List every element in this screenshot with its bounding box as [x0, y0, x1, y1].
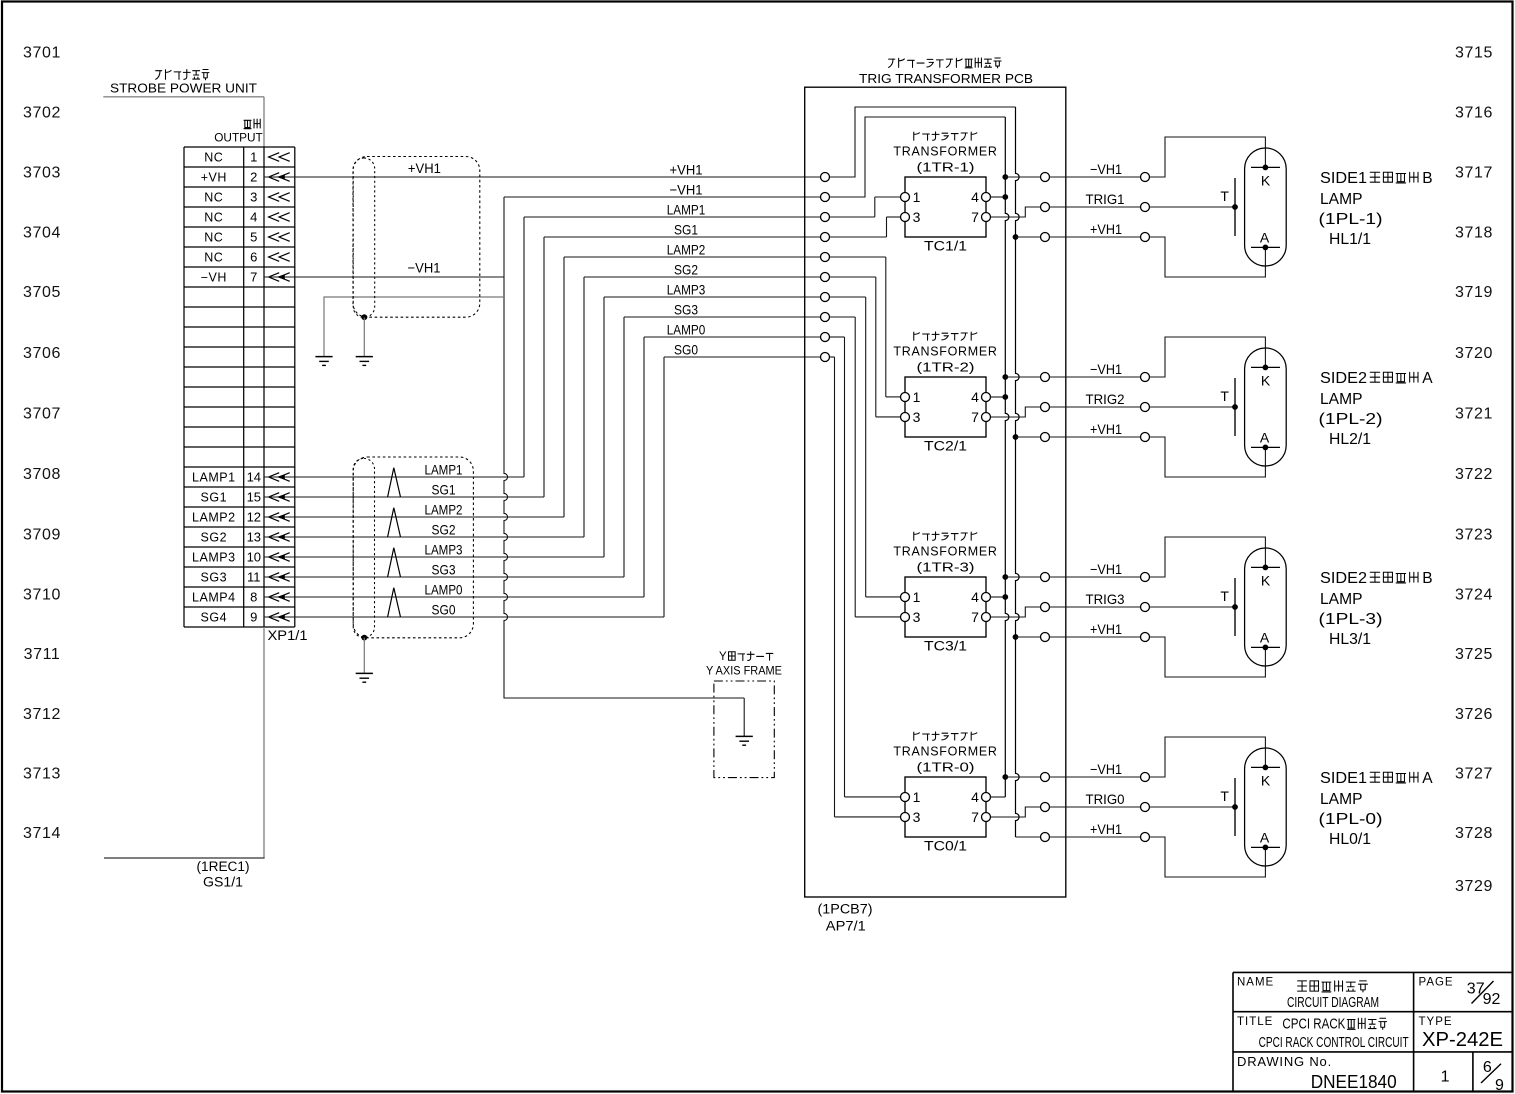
svg-text:LAMP: LAMP: [1320, 391, 1363, 408]
connector XP1 pin 7 (−VH): [201, 270, 295, 285]
svg-text:NC: NC: [204, 250, 223, 264]
svg-text:3706: 3706: [23, 345, 61, 362]
svg-text:−VH: −VH: [201, 270, 227, 284]
svg-text:SG2: SG2: [674, 261, 698, 277]
svg-text:3703: 3703: [23, 165, 61, 182]
PCB AP7 reference designator (1PCB7) AP7/1: [818, 901, 873, 933]
svg-text:LAMP3: LAMP3: [192, 550, 236, 564]
svg-text:TITLE: TITLE: [1237, 1016, 1273, 1028]
ground symbol (chassis, left): [315, 357, 332, 366]
title block: PAGE cell 37/92: [1419, 977, 1501, 1009]
svg-text:3723: 3723: [1455, 527, 1493, 544]
lamp 2 input terminal: [1141, 403, 1150, 412]
svg-text:LAMP0: LAMP0: [667, 321, 706, 337]
lamp 0 input terminal: [1141, 833, 1150, 842]
svg-text:K: K: [1261, 372, 1271, 388]
svg-text:(1PL-2): (1PL-2): [1319, 411, 1383, 428]
cable shield (dashed) around +VH1/-VH1 pair: [353, 157, 480, 318]
PCB output terminal -VH1 (lamp 3 side): [1041, 573, 1050, 582]
connector XP1 pin 15 (SG1): [201, 490, 295, 505]
svg-text:NC: NC: [204, 210, 223, 224]
PCB input terminal SG2: [821, 273, 830, 282]
chassis ground stub near cable shield: [324, 297, 504, 357]
PCB input terminal +VH1: [821, 173, 830, 182]
connector XP1 pin 8 (LAMP4): [192, 590, 295, 605]
PCB input terminal LAMP3: [821, 293, 830, 302]
svg-text:SG1: SG1: [201, 490, 228, 504]
svg-text:3: 3: [913, 409, 921, 425]
net label +VH1 (lamp 2): [1090, 421, 1122, 437]
net label +VH1 (lamp 0): [1090, 821, 1122, 837]
PCB output terminal TRIG0 (lamp 0 side): [1041, 803, 1050, 812]
wire TRIG0 to trigger electrode: [1150, 806, 1236, 808]
pin 4: [982, 393, 991, 402]
power unit GS1 label: STROBE POWER UNIT: [103, 70, 264, 147]
transformer TC0 (1TR-0): [893, 732, 997, 853]
svg-text:SG4: SG4: [201, 610, 228, 624]
net label LAMP1 (at PCB): [667, 201, 706, 217]
sheet zone numbers (right margin): [1455, 45, 1493, 896]
svg-text:3709: 3709: [23, 527, 61, 544]
wire net SG2: [295, 277, 901, 537]
connector XP1 pin 12 (LAMP2): [192, 510, 295, 525]
wire net SG1: [295, 217, 901, 497]
svg-text:3701: 3701: [23, 45, 61, 62]
wire net LAMP0: [295, 337, 901, 797]
svg-text:3724: 3724: [1455, 587, 1493, 604]
svg-text:DRAWING No.: DRAWING No.: [1237, 1054, 1332, 1069]
lamp HL2 (1PL-2) discharge tube: [1220, 348, 1286, 466]
net label +VH1 (cable): [408, 160, 441, 176]
connector XP1 pin 9 (SG4): [201, 610, 295, 625]
connector XP1 pin 4 (NC): [204, 210, 289, 225]
wire +VH1: PCB to lamp HL0 anode: [1050, 836, 1141, 838]
svg-text:LAMP2: LAMP2: [425, 501, 463, 517]
lamp HL1 name label: [1319, 170, 1433, 248]
wire TRIG3: PCB to lamp HL3 trigger: [1050, 606, 1141, 608]
wire +VH1 bus to output terminal (TC0 row): [1016, 836, 1041, 838]
svg-text:A: A: [1260, 629, 1270, 645]
svg-text:5: 5: [250, 230, 257, 245]
svg-text:TRIG2: TRIG2: [1086, 391, 1125, 407]
wire net SG3: [295, 317, 901, 617]
svg-text:3719: 3719: [1455, 284, 1493, 301]
lamp 3 input terminal: [1141, 633, 1150, 642]
svg-text:3702: 3702: [23, 105, 61, 122]
svg-text:−VH1: −VH1: [408, 259, 441, 275]
svg-text:3705: 3705: [23, 284, 61, 301]
lamp 2 input terminal: [1141, 373, 1150, 382]
svg-text:LAMP3: LAMP3: [425, 541, 463, 557]
svg-text:11: 11: [247, 570, 261, 585]
connector XP1 pin table grid: [184, 147, 295, 627]
svg-text:3728: 3728: [1455, 825, 1493, 842]
svg-text:3721: 3721: [1455, 406, 1493, 423]
svg-text:SG2: SG2: [201, 530, 228, 544]
wire lamp HL1 cathode routing: [1150, 137, 1266, 177]
svg-text:XP1/1: XP1/1: [268, 628, 308, 643]
net label TRIG0: [1086, 791, 1125, 807]
cable shield drain wire and junction (upper shield): [361, 314, 367, 356]
connector XP1 pin 14 (LAMP1): [192, 470, 295, 485]
wire TRIG3 to trigger electrode: [1150, 606, 1236, 608]
wire net -VH1: XP1 pin 7 to PCB input and Y-frame ground: [295, 117, 1006, 698]
svg-text:92: 92: [1483, 991, 1501, 1008]
title block: TITLE cell: [1237, 1016, 1409, 1051]
PCB output terminal -VH1 (lamp 1 side): [1041, 173, 1050, 182]
svg-text:K: K: [1261, 772, 1271, 788]
wire net LAMP2: [295, 257, 901, 517]
pin 7: [982, 813, 991, 822]
svg-text:+VH: +VH: [201, 170, 227, 184]
svg-text:SG0: SG0: [674, 341, 698, 357]
net label TRIG1: [1086, 191, 1125, 207]
lamp HL0 (1PL-0) discharge tube: [1220, 748, 1286, 866]
svg-text:(1PL-0): (1PL-0): [1319, 811, 1383, 828]
svg-text:DNEE1840: DNEE1840: [1311, 1071, 1397, 1092]
svg-text:TC2/1: TC2/1: [924, 438, 967, 453]
svg-text:7: 7: [971, 809, 979, 825]
net label +VH1 (lamp 3): [1090, 621, 1122, 637]
wire lamp HL0 cathode routing: [1150, 737, 1266, 777]
svg-text:A: A: [1422, 370, 1433, 387]
lamp HL3 name label: [1319, 570, 1433, 648]
title block: DRAWING No. cell DNEE1840: [1237, 1054, 1504, 1094]
svg-text:15: 15: [247, 490, 261, 505]
svg-text:3729: 3729: [1455, 878, 1493, 895]
twisted pair LAMP1/SG1: [388, 461, 463, 497]
svg-text:T: T: [1220, 788, 1229, 804]
svg-text:LAMP0: LAMP0: [425, 581, 463, 597]
svg-text:SIDE2: SIDE2: [1320, 370, 1367, 387]
net label +VH1 (lamp 1): [1090, 221, 1122, 237]
svg-text:9: 9: [1495, 1077, 1504, 1094]
svg-text:(1PCB7): (1PCB7): [818, 901, 873, 916]
svg-text:B: B: [1422, 170, 1432, 187]
lamp 3 input terminal: [1141, 603, 1150, 612]
pin 3: [901, 413, 910, 422]
svg-text:TRIG TRANSFORMER PCB: TRIG TRANSFORMER PCB: [859, 71, 1033, 86]
svg-text:Y AXIS FRAME: Y AXIS FRAME: [706, 664, 782, 678]
pin 1: [901, 193, 910, 202]
svg-text:SIDE1: SIDE1: [1320, 170, 1367, 187]
svg-text:SG2: SG2: [432, 521, 456, 537]
svg-text:1: 1: [913, 389, 921, 405]
svg-text:4: 4: [971, 789, 979, 805]
svg-text:NC: NC: [204, 190, 223, 204]
wire TC3 pin 4 to -VH1 bus: [991, 596, 1006, 598]
svg-text:TRANSFORMER: TRANSFORMER: [893, 145, 997, 159]
svg-text:3704: 3704: [23, 225, 61, 242]
svg-text:+VH1: +VH1: [408, 160, 441, 176]
twisted pair LAMP3/SG3: [388, 541, 463, 577]
svg-text:13: 13: [247, 530, 261, 545]
svg-text:7: 7: [971, 409, 979, 425]
svg-text:TRIG3: TRIG3: [1086, 591, 1125, 607]
wire TRIG1 to trigger electrode: [1150, 206, 1236, 208]
svg-text:+VH1: +VH1: [670, 161, 703, 177]
wire -VH1 bus to output terminal (TC0 row): [1002, 774, 1040, 780]
svg-text:SIDE2: SIDE2: [1320, 570, 1367, 587]
svg-text:SG3: SG3: [432, 561, 456, 577]
PCB input terminal SG1: [821, 233, 830, 242]
lamp 3 input terminal: [1141, 573, 1150, 582]
wire net +VH1: XP1 pin 2 to PCB input: [295, 107, 1016, 177]
wire -VH1: PCB to lamp HL2 cathode: [1050, 376, 1141, 378]
svg-text:3718: 3718: [1455, 225, 1493, 242]
net label SG0 (at PCB): [674, 341, 698, 357]
svg-text:1: 1: [913, 189, 921, 205]
net label -VH1 (lamp 0): [1090, 761, 1122, 777]
lamp 0 input terminal: [1141, 773, 1150, 782]
svg-text:3: 3: [913, 809, 921, 825]
PCB AP7 (TRIG TRANSFORMER PCB) outline: [805, 87, 1066, 897]
svg-text:PAGE: PAGE: [1419, 977, 1454, 989]
svg-text:3: 3: [250, 190, 257, 205]
svg-text:TC1/1: TC1/1: [924, 238, 967, 253]
pin 1: [901, 793, 910, 802]
svg-text:B: B: [1422, 570, 1432, 587]
svg-text:3716: 3716: [1455, 105, 1493, 122]
PCB input terminal LAMP0: [821, 333, 830, 342]
pin 7: [982, 213, 991, 222]
svg-text:OUTPUT: OUTPUT: [214, 130, 263, 144]
svg-text:HL2/1: HL2/1: [1329, 431, 1371, 448]
PCB input terminal LAMP2: [821, 253, 830, 262]
svg-text:TC0/1: TC0/1: [924, 838, 967, 853]
svg-text:4: 4: [971, 189, 979, 205]
wire TC1 pin 4 to -VH1 bus: [991, 196, 1006, 198]
svg-text:T: T: [1220, 188, 1229, 204]
wire TRIG0: PCB to lamp HL0 trigger: [1050, 806, 1141, 808]
svg-text:(1TR-2): (1TR-2): [917, 360, 975, 374]
PCB output terminal TRIG1 (lamp 1 side): [1041, 203, 1050, 212]
lamp HL2 name label: [1319, 370, 1434, 448]
net label -VH1 (cable): [408, 259, 441, 275]
ground symbol (lower shield drain): [356, 673, 373, 682]
PCB output terminal +VH1 (lamp 1 side): [1041, 233, 1050, 242]
svg-text:STROBE POWER UNIT: STROBE POWER UNIT: [110, 80, 257, 95]
svg-text:−VH1: −VH1: [670, 181, 703, 197]
wire TRIG2 to trigger electrode: [1150, 406, 1236, 408]
connector XP1 reference designator: [268, 628, 308, 643]
pin 7: [982, 413, 991, 422]
wire TC1 pin 7 to TRIG1 output: [991, 207, 1041, 217]
bus +VH1 inside PCB (vertical) with crossover hops: [1016, 107, 1020, 837]
svg-text:14: 14: [247, 470, 261, 485]
svg-text:LAMP1: LAMP1: [192, 470, 236, 484]
wire +VH1: PCB to lamp HL1 anode: [1050, 236, 1141, 238]
pin 3: [901, 613, 910, 622]
pin 3: [901, 813, 910, 822]
net label -VH1 (lamp 3): [1090, 561, 1122, 577]
PCB input terminal -VH1: [821, 193, 830, 202]
connector XP1 pin 13 (SG2): [201, 530, 295, 545]
svg-text:(1PL-1): (1PL-1): [1319, 211, 1383, 228]
wire TC0 pin 7 to TRIG0 output: [991, 807, 1041, 817]
connector XP1 pin 1 (NC): [204, 150, 289, 165]
wire -VH1 bus to output terminal (TC2 row): [1002, 374, 1040, 380]
svg-text:1: 1: [913, 789, 921, 805]
lamp 1 input terminal: [1141, 233, 1150, 242]
wire net LAMP3: [295, 297, 901, 597]
svg-text:A: A: [1260, 229, 1270, 245]
connector XP1 pin 11 (SG3): [201, 570, 295, 585]
title block: TYPE cell XP-242E: [1419, 1016, 1504, 1051]
svg-text:LAMP4: LAMP4: [192, 590, 236, 604]
wire lamp HL2 anode routing: [1150, 437, 1266, 477]
svg-text:7: 7: [971, 209, 979, 225]
net label TRIG2: [1086, 391, 1125, 407]
svg-text:9: 9: [250, 610, 257, 625]
connector XP1 pin 2 (+VH): [201, 170, 295, 185]
svg-text:NAME: NAME: [1237, 977, 1274, 989]
svg-text:LAMP2: LAMP2: [667, 241, 706, 257]
pin 1: [901, 393, 910, 402]
svg-text:AP7/1: AP7/1: [826, 919, 866, 934]
svg-text:6: 6: [250, 250, 257, 265]
wire +VH1 bus to output terminal (TC2 row): [1013, 434, 1041, 440]
net label SG1 (at PCB): [674, 221, 698, 237]
junction -VH1 bus / TC3 pin 4: [1002, 594, 1008, 600]
PCB output terminal TRIG3 (lamp 3 side): [1041, 603, 1050, 612]
svg-text:SG0: SG0: [432, 601, 456, 617]
net label LAMP3 (at PCB): [667, 281, 706, 297]
junction -VH1 bus / TC2 pin 4: [1002, 394, 1008, 400]
svg-text:T: T: [1220, 388, 1229, 404]
lamp HL0 name label: [1319, 770, 1434, 848]
svg-text:LAMP1: LAMP1: [667, 201, 706, 217]
svg-text:−VH1: −VH1: [1090, 761, 1122, 777]
twisted pair LAMP2/SG2: [388, 501, 463, 537]
transformer TC3 (1TR-3): [893, 532, 997, 653]
lamp 1 input terminal: [1141, 203, 1150, 212]
svg-text:3720: 3720: [1455, 345, 1493, 362]
svg-text:−VH1: −VH1: [1090, 161, 1122, 177]
svg-text:3710: 3710: [23, 587, 61, 604]
svg-text:NC: NC: [204, 230, 223, 244]
svg-text:A: A: [1260, 829, 1270, 845]
svg-text:Y: Y: [719, 651, 727, 663]
pin 4: [982, 593, 991, 602]
svg-text:3722: 3722: [1455, 466, 1493, 483]
svg-text:SG3: SG3: [201, 570, 228, 584]
pin 4: [982, 793, 991, 802]
svg-text:HL0/1: HL0/1: [1329, 831, 1371, 848]
svg-text:7: 7: [971, 609, 979, 625]
svg-text:A: A: [1260, 429, 1270, 445]
ground symbol (Y axis frame): [736, 736, 753, 745]
svg-text:4: 4: [971, 589, 979, 605]
svg-text:3: 3: [913, 609, 921, 625]
pin 1: [901, 593, 910, 602]
svg-text:(1TR-3): (1TR-3): [917, 560, 975, 574]
svg-text:TC3/1: TC3/1: [924, 638, 967, 653]
wire -VH1: PCB to lamp HL0 cathode: [1050, 776, 1141, 778]
svg-text:SIDE1: SIDE1: [1320, 770, 1367, 787]
svg-text:K: K: [1261, 572, 1271, 588]
svg-text:LAMP2: LAMP2: [192, 510, 236, 524]
transformer TC1 (1TR-1): [893, 132, 997, 253]
lamp 1 input terminal: [1141, 173, 1150, 182]
PCB output terminal TRIG2 (lamp 2 side): [1041, 403, 1050, 412]
wire lamp HL3 cathode routing: [1150, 537, 1266, 577]
svg-text:NC: NC: [204, 150, 223, 164]
wire -VH1 bus to output terminal (TC3 row): [1002, 574, 1040, 580]
svg-text:LAMP: LAMP: [1320, 591, 1363, 608]
PCB input terminal SG3: [821, 313, 830, 322]
wire -VH1: PCB to lamp HL1 cathode: [1050, 176, 1141, 178]
svg-text:K: K: [1261, 172, 1271, 188]
svg-text:3725: 3725: [1455, 646, 1493, 663]
svg-text:3713: 3713: [23, 765, 61, 782]
svg-text:1: 1: [913, 589, 921, 605]
PCB input terminal SG0: [821, 353, 830, 362]
sheet zone numbers (left margin): [23, 45, 61, 843]
wire lamp HL2 cathode routing: [1150, 337, 1266, 377]
wire net SG0: [295, 357, 901, 817]
svg-text:1: 1: [1441, 1068, 1450, 1085]
svg-text:3712: 3712: [23, 706, 61, 723]
connector XP1 pin 10 (LAMP3): [192, 550, 295, 565]
svg-text:3726: 3726: [1455, 706, 1493, 723]
connector XP1 pin 6 (NC): [204, 250, 289, 265]
lamp HL3 (1PL-3) discharge tube: [1220, 548, 1286, 666]
net label LAMP2 (at PCB): [667, 241, 706, 257]
wire TRIG2: PCB to lamp HL2 trigger: [1050, 406, 1141, 408]
net label -VH1 (lamp 2): [1090, 361, 1122, 377]
wire -VH1: PCB to lamp HL3 cathode: [1050, 576, 1141, 578]
pin 3: [901, 213, 910, 222]
svg-text:LAMP3: LAMP3: [667, 281, 706, 297]
svg-text:GS1/1: GS1/1: [203, 874, 243, 889]
svg-text:+VH1: +VH1: [1090, 821, 1122, 837]
twisted pair LAMP0/SG0: [388, 581, 463, 617]
svg-text:3715: 3715: [1455, 45, 1493, 62]
svg-text:4: 4: [971, 389, 979, 405]
svg-text:TRANSFORMER: TRANSFORMER: [893, 745, 997, 759]
wire +VH1: PCB to lamp HL2 anode: [1050, 436, 1141, 438]
svg-text:3708: 3708: [23, 466, 61, 483]
PCB input terminal LAMP1: [821, 213, 830, 222]
svg-text:TRANSFORMER: TRANSFORMER: [893, 345, 997, 359]
net label SG3 (at PCB): [674, 301, 698, 317]
svg-text:HL3/1: HL3/1: [1329, 631, 1371, 648]
svg-text:4: 4: [250, 210, 257, 225]
svg-text:LAMP: LAMP: [1320, 791, 1363, 808]
svg-text:SG1: SG1: [674, 221, 698, 237]
Y AXIS FRAME chassis (dash-dot box): [706, 651, 782, 778]
wire TC0 pin 4 to -VH1 bus: [991, 796, 1006, 798]
svg-text:7: 7: [250, 270, 257, 285]
svg-text:10: 10: [247, 550, 261, 565]
connector XP1 pin 3 (NC): [204, 190, 289, 205]
power unit bracket and reference (1REC1) GS1/1: [104, 627, 265, 889]
svg-text:A: A: [1422, 770, 1433, 787]
svg-text:CPCI RACK CONTROL CIRCUIT: CPCI RACK CONTROL CIRCUIT: [1259, 1035, 1409, 1051]
net label TRIG3: [1086, 591, 1125, 607]
net label -VH1 (at PCB): [670, 181, 703, 197]
svg-text:−VH1: −VH1: [1090, 561, 1122, 577]
net label LAMP0 (at PCB): [667, 321, 706, 337]
svg-text:12: 12: [247, 510, 261, 525]
svg-text:3: 3: [913, 209, 921, 225]
wire +VH1 bus to output terminal (TC3 row): [1013, 634, 1041, 640]
pin 7: [982, 613, 991, 622]
cable shield drain wire and junction (lower shield): [361, 635, 367, 674]
wire +VH1 bus to output terminal (TC1 row): [1013, 234, 1041, 240]
ground symbol (upper shield drain): [356, 357, 373, 366]
